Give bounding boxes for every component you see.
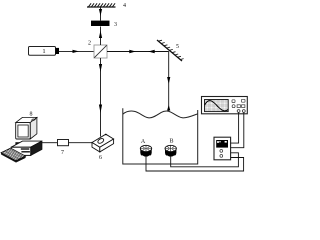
- svg-text:6: 6: [99, 155, 102, 161]
- detector 6: [92, 134, 114, 161]
- wire transducer A: [146, 157, 244, 172]
- svg-text:2: 2: [88, 41, 91, 47]
- wire splitter up to mirror 4: [99, 7, 102, 45]
- mirror 5: [157, 40, 184, 61]
- svg-text:4: 4: [123, 3, 126, 9]
- oscilloscope: [202, 97, 248, 114]
- wire splitter down to detector 6: [99, 58, 102, 137]
- wire computer to box 7: [42, 142, 58, 144]
- svg-text:7: 7: [61, 150, 64, 156]
- computer 8: [1, 112, 42, 163]
- amplifier box 7: [58, 140, 69, 157]
- transducer A: [140, 139, 151, 157]
- wire scope jack left to generator: [231, 112, 239, 143]
- wire box 7 to detector 6: [69, 142, 93, 144]
- transducer B: [165, 139, 176, 158]
- wire scope jack right to generator: [231, 112, 244, 147]
- wire mirror 5 down to water tank: [167, 52, 170, 112]
- water tank: [123, 108, 198, 164]
- svg-text:5: 5: [176, 44, 179, 50]
- svg-text:A: A: [141, 139, 146, 145]
- mirror 4: [87, 3, 126, 9]
- signal generator: [214, 137, 231, 160]
- attenuator 3: [91, 21, 117, 28]
- wire transducer B: [171, 153, 239, 167]
- svg-text:3: 3: [114, 22, 117, 28]
- laser 1: [29, 47, 60, 56]
- wire laser to beam splitter: [59, 50, 94, 53]
- svg-text:B: B: [169, 139, 173, 145]
- svg-text:1: 1: [42, 48, 45, 55]
- wire splitter right to mirror 5: [107, 50, 169, 53]
- svg-text:8: 8: [30, 112, 33, 118]
- beam splitter 2: [88, 41, 107, 59]
